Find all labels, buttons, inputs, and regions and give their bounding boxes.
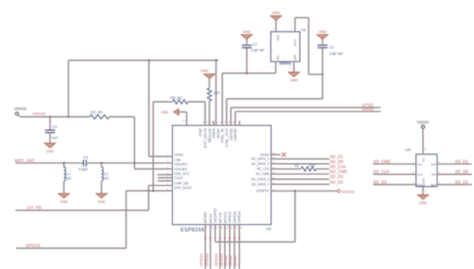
wire VDDA feed to pin1: [149, 155, 173, 157]
U2 left pin labels (VDDA LNA VDD3P3 VDD3P3 VDD_RTC TOUT CHIP_EN XPD_DCDC): [167, 153, 193, 191]
wire L1 top: [63, 163, 65, 167]
svg-text:R5_NC: R5_NC: [171, 96, 183, 100]
junction rail VDDD: [215, 59, 217, 61]
U1 pin numbers: [272, 29, 293, 70]
resistor R5 NC: [171, 96, 189, 104]
svg-text:U3: U3: [406, 148, 411, 152]
svg-text:SD_D2: SD_D2: [330, 179, 344, 184]
svg-text:VDDPST: VDDPST: [214, 207, 218, 223]
wire GPIO16 to XPD_DCDC: [126, 190, 172, 192]
junction C2: [321, 73, 323, 75]
IC U2 ESP8266 body: [173, 126, 272, 225]
net label URXD: [362, 107, 374, 112]
wire U0TXD riser: [230, 108, 232, 126]
ground under L1: [58, 194, 69, 204]
crystal U1 body: [271, 32, 300, 62]
U2 bottom pin labels (MTMS MTDI VDDPST MTCK MTDO GPIO2 GPIO0 GPIO4): [204, 207, 243, 230]
wire SD_CLK right: [316, 164, 346, 169]
U2 left pin stubs 4 5 6: [158, 175, 173, 181]
svg-text:U2: U2: [266, 226, 272, 231]
wire flash GND: [422, 187, 424, 195]
junction R5 XPD: [152, 190, 154, 192]
svg-text:VDD3P3: VDD3P3: [174, 163, 187, 167]
svg-text:GPIO4: GPIO4: [234, 255, 238, 266]
U2 top pin stubs 30 and spare: [214, 121, 240, 126]
svg-text:GPIO12: GPIO12: [205, 253, 209, 266]
wire C1 bottom: [246, 48, 248, 73]
wire U1 pin3 up: [294, 18, 296, 32]
net label VDD33: [33, 111, 47, 116]
wire to VDD3P3 pin3: [135, 168, 173, 170]
ground above U1 pin4: [271, 11, 282, 20]
svg-text:XPD_DCDC: XPD_DCDC: [174, 186, 193, 190]
svg-text:C1: C1: [253, 42, 258, 46]
svg-text:GND: GND: [243, 30, 251, 34]
no-connect DVDD: [282, 152, 286, 156]
svg-text:VCC: VCC: [421, 157, 425, 163]
svg-text:GND: GND: [272, 11, 280, 15]
ground under U1 pin2: [288, 72, 299, 82]
U3 pin numbers: [413, 149, 441, 193]
junction crossing: [133, 162, 135, 164]
svg-text:GND: GND: [419, 201, 427, 205]
svg-text:MTMS: MTMS: [204, 211, 208, 223]
wires bottom GPIO with marks: [205, 225, 241, 269]
svg-text:SD_DATA_2: SD_DATA_2: [251, 183, 269, 187]
wire VDD down: [134, 117, 136, 169]
svg-text:CAP NP: CAP NP: [329, 52, 343, 56]
wire flash SD_CMD: [373, 159, 416, 164]
capacitor C1 CAP NP: [242, 42, 265, 52]
junction C3: [49, 116, 51, 118]
junction VDD33 riser: [67, 116, 69, 118]
svg-text:C2: C2: [329, 46, 334, 50]
svg-text:/WP: /WP: [431, 183, 436, 187]
svg-text:VDDA: VDDA: [174, 153, 184, 157]
pin 33 number: [182, 121, 185, 123]
wire flash SD_D1: [437, 159, 472, 164]
svg-text:GPIO4: GPIO4: [238, 211, 242, 223]
svg-text:GND: GND: [421, 178, 425, 184]
wire XTAL_OUT riser: [226, 99, 228, 126]
wire R5 left: [153, 101, 172, 103]
net label GPIO16: [26, 243, 42, 248]
ground above R2: [201, 69, 215, 79]
svg-text:GPIO2: GPIO2: [224, 255, 228, 266]
svg-text:CLK: CLK: [417, 173, 423, 177]
wire U1 pin2 to gnd: [293, 62, 295, 73]
wire VDDD feed down: [215, 60, 217, 125]
svg-text:XOUT: XOUT: [293, 38, 297, 46]
wire XOUT to C2: [309, 73, 323, 75]
svg-text:SD_D3: SD_D3: [373, 179, 387, 184]
U1 pin labels GND XIN XOUT GND: [276, 35, 297, 61]
wire XOUT top: [295, 17, 309, 19]
inductor L2 NC: [102, 167, 110, 181]
wire GPIO16 horizontal: [16, 247, 126, 249]
svg-text:L1: L1: [66, 172, 70, 176]
wire DVDD stub: [271, 154, 281, 156]
svg-text:C3: C3: [52, 125, 57, 129]
svg-text:GND: GND: [290, 79, 298, 83]
junction L1: [63, 162, 65, 164]
svg-text:XIN: XIN: [276, 55, 280, 60]
wire R2 bottom: [208, 101, 210, 126]
svg-text:GND: GND: [46, 150, 54, 154]
wire L2 bottom: [101, 181, 103, 194]
wire L2 top: [101, 163, 103, 167]
wire flash SD_D0: [437, 169, 472, 174]
wire R5 down to XPD: [152, 102, 154, 191]
wire XTAL_IN node: [222, 72, 275, 74]
ground above C2: [317, 30, 328, 39]
svg-text:GPIO14: GPIO14: [200, 253, 204, 266]
junction L2: [100, 162, 102, 164]
svg-text:R1: R1: [295, 164, 300, 168]
svg-text:GND: GND: [293, 54, 297, 60]
wire U0RXD riser: [234, 112, 236, 126]
svg-text:SD_CMD: SD_CMD: [256, 172, 270, 176]
svg-text:GPIO13: GPIO13: [214, 253, 218, 266]
ground arrow pin33: [161, 109, 179, 115]
svg-text:WIFI_ANT: WIFI_ANT: [15, 158, 35, 163]
svg-text:5.6pF: 5.6pF: [79, 168, 89, 172]
svg-text:VDD33: VDD33: [417, 121, 429, 125]
svg-text:NC: NC: [66, 177, 72, 181]
svg-text:SD_DATA_1: SD_DATA_1: [251, 157, 269, 161]
svg-text:CAP NP: CAP NP: [251, 49, 265, 53]
svg-text:MTDO: MTDO: [223, 212, 227, 223]
capacitor C4 5.6pF: [79, 155, 89, 171]
svg-text:SD_DATA_3: SD_DATA_3: [251, 177, 269, 181]
ground under C3: [45, 143, 56, 153]
designator U3: [406, 148, 411, 152]
inductor L1 NC: [64, 167, 72, 181]
resistor R1 200: [295, 163, 317, 171]
wire C3 top: [49, 117, 51, 130]
svg-text:NC: NC: [104, 177, 110, 181]
svg-text:200: 200: [309, 163, 315, 167]
wire SD_CLK left: [271, 168, 301, 170]
wire flash SD_D3: [373, 179, 416, 184]
svg-text:SD_CLK: SD_CLK: [373, 169, 389, 174]
svg-text:R3_0R: R3_0R: [91, 111, 103, 115]
U2 right pin labels (DVDD SD_DATA_1 SD_DATA_0 SD_CLK SD_CMD SD_DATA_3 SD_DATA_2 VDDPST): [251, 153, 275, 193]
designator U2: [266, 226, 272, 231]
svg-text:VDD33: VDD33: [14, 107, 26, 111]
svg-text:GND: GND: [201, 69, 209, 73]
ground above C1: [241, 30, 252, 39]
svg-text:GND: GND: [60, 200, 68, 204]
U2 top pin labels (GND EXT_RSTB RES12K VDDA VDDD XTAL_IN XTAL_OUT U0TXD U0RXD): [199, 122, 238, 148]
svg-text:/CS: /CS: [417, 162, 422, 166]
svg-text:GPIO0: GPIO0: [229, 255, 233, 266]
svg-text:VDD_RTC: VDD_RTC: [174, 172, 190, 176]
wire CH_PD vertical: [148, 186, 150, 211]
wire VDD33 riser: [67, 60, 69, 117]
power VDD33 right: [337, 189, 355, 194]
wire flash SD_D2: [437, 179, 472, 184]
svg-text:SD_D1: SD_D1: [455, 159, 469, 164]
svg-text:GND: GND: [319, 30, 327, 34]
wire XTAL_IN riser: [221, 73, 223, 125]
wire VDDPST to VDD33: [271, 190, 337, 192]
svg-text:SD_CLK: SD_CLK: [257, 167, 270, 171]
svg-text:1uF: 1uF: [52, 136, 59, 140]
wire SD_D1: [271, 154, 344, 159]
svg-text:LNA: LNA: [174, 158, 181, 162]
net labels bottom (GPIO14 GPIO12 GPIO13 GPIO15 GPIO2 GPIO0 GPIO4): [200, 253, 238, 266]
value 26MHz: [279, 62, 291, 66]
svg-text:C4: C4: [83, 155, 88, 159]
wire UTXD: [231, 107, 381, 109]
port VDD33 left: [14, 107, 26, 117]
svg-text:L2: L2: [104, 172, 108, 176]
wire flash VCC: [422, 128, 424, 154]
svg-text:GPIO16: GPIO16: [26, 243, 42, 248]
wire flash SD_CLK: [373, 169, 416, 174]
wire U1 pin4 to gnd: [275, 20, 277, 32]
svg-text:ESP8266: ESP8266: [181, 227, 205, 233]
wire C3 bottom: [49, 133, 51, 144]
wire URXD: [235, 111, 380, 113]
wire SD_CMD: [271, 169, 347, 174]
wire R5 right: [188, 101, 205, 103]
svg-text:MTDI: MTDI: [209, 214, 213, 223]
wire XOUT down: [308, 18, 310, 75]
svg-text:GND: GND: [161, 110, 169, 114]
wire top rail: [68, 59, 218, 61]
svg-text:DIO: DIO: [431, 162, 437, 166]
svg-text:26MHz: 26MHz: [279, 62, 291, 66]
wire VDDPST riser: [214, 225, 216, 242]
wire VDDA feed down: [148, 60, 150, 156]
flash U3 body: [416, 154, 437, 186]
wire SD_D2: [271, 179, 344, 184]
svg-text:MTCK: MTCK: [218, 212, 222, 223]
svg-text:SD_D0: SD_D0: [455, 169, 469, 174]
designator U1: [301, 28, 306, 32]
power VDD33 flash: [417, 121, 429, 129]
wire EXT_RSTB riser: [204, 102, 206, 126]
resistor R3 0R: [90, 111, 110, 119]
svg-text:VDD33: VDD33: [342, 189, 356, 194]
ground under L2: [96, 194, 107, 204]
wire VDD33 to R3: [20, 116, 90, 118]
svg-text:VDD33: VDD33: [33, 111, 47, 116]
net label UTXD: [362, 103, 373, 108]
wire U1 pin1 down: [275, 62, 277, 74]
capacitor C2 CAP NP: [318, 45, 344, 56]
wire GPIO16 vertical: [125, 191, 127, 248]
wire XOUT down2: [322, 74, 324, 98]
wire antenna left: [16, 162, 84, 164]
svg-text:GND: GND: [276, 35, 280, 41]
wire VDDPST down: [294, 191, 296, 242]
svg-text:GPIO0: GPIO0: [233, 211, 237, 223]
wire antenna right: [86, 162, 172, 164]
ground under flash: [418, 195, 429, 205]
capacitor C3 1uF: [45, 125, 59, 140]
svg-text:TOUT: TOUT: [174, 177, 183, 181]
svg-text:CHIP_EN: CHIP_EN: [174, 181, 189, 185]
svg-text:VDD3P3: VDD3P3: [174, 167, 187, 171]
svg-text:SD_DATA_0: SD_DATA_0: [251, 162, 269, 166]
svg-text:GND: GND: [199, 128, 203, 137]
svg-text:U1: U1: [301, 28, 306, 32]
svg-text:GPIO2: GPIO2: [228, 211, 232, 223]
net label WIFI_ANT: [15, 158, 35, 163]
wire R3 to corner: [109, 116, 134, 118]
wire SD_D0: [271, 159, 344, 164]
junction C1: [246, 72, 248, 74]
svg-text:CH_PD: CH_PD: [27, 205, 42, 210]
net label CH_PD: [27, 205, 42, 210]
svg-text:URXD: URXD: [362, 107, 374, 112]
svg-text:12K: 12K: [213, 91, 220, 95]
svg-text:VDDPST: VDDPST: [256, 189, 269, 193]
wire pin33 riser: [179, 112, 187, 126]
label ESP8266: [181, 227, 205, 233]
svg-text:SD_CMD: SD_CMD: [373, 159, 391, 164]
junction rail VDDA: [148, 59, 150, 61]
wire C2 top: [322, 39, 324, 46]
resistor R2 12K: [207, 88, 220, 101]
wire CH_PD horizontal: [16, 209, 149, 211]
wire C2 bottom: [322, 48, 324, 75]
wire CH_PD to CHIP_EN: [149, 185, 173, 187]
wire VDDPST bottom rail: [215, 241, 295, 243]
svg-text:GND: GND: [98, 200, 106, 204]
wire SD_D3: [271, 174, 344, 179]
wire L1 bottom: [63, 181, 65, 194]
U3 pin labels: [417, 157, 437, 187]
svg-text:SD_D2: SD_D2: [455, 179, 469, 184]
wire R2 top: [208, 78, 210, 88]
svg-text:U0RXD: U0RXD: [234, 128, 238, 141]
svg-text:GPIO15: GPIO15: [219, 253, 223, 266]
wire C1 top: [246, 39, 248, 46]
junction VDDPST: [294, 190, 296, 192]
wire XTAL_OUT horizontal: [227, 98, 323, 100]
